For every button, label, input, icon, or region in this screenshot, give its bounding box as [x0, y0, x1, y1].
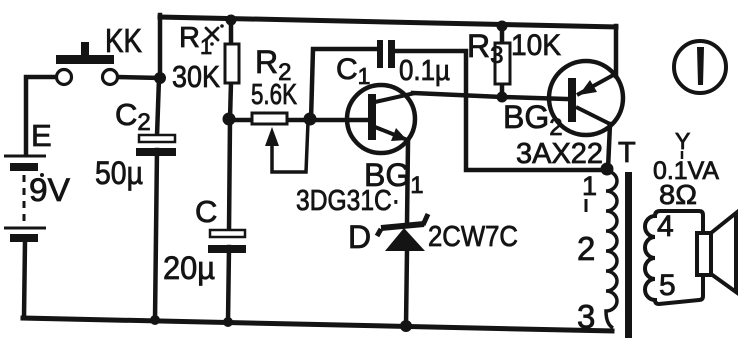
resistor R3: [495, 43, 510, 84]
junction R1 top node: [226, 15, 237, 26]
label D: [348, 219, 371, 255]
svg-text:E: E: [31, 118, 52, 153]
junction R1/R2/C node: [223, 113, 236, 126]
label tap 1: [582, 171, 597, 201]
label 10K: [511, 29, 561, 62]
transistor BG2: [549, 61, 623, 135]
label C1: [336, 53, 370, 89]
capacitor C2: [136, 135, 176, 156]
wire C1 left branch: [311, 49, 378, 120]
wire R3 branch: [500, 26, 505, 98]
wire BG1 collector row: [413, 93, 568, 99]
svg-text:0.1µ: 0.1µ: [399, 55, 450, 87]
wire right drop to BG2 emitter: [614, 26, 619, 76]
label 30K: [172, 59, 220, 94]
svg-text:4: 4: [657, 210, 674, 243]
label 50u: [95, 155, 143, 191]
svg-text:T: T: [618, 137, 636, 169]
reference mark for R1: [206, 24, 224, 46]
label tap 3: [577, 298, 595, 335]
wire BG1 emitter to zener: [407, 142, 408, 224]
label 3DG31C: [296, 185, 400, 217]
label C2: [115, 97, 151, 136]
dot above 9V: [40, 173, 44, 177]
label 5.6K: [251, 79, 297, 111]
label 20u: [163, 250, 215, 286]
wire base row to BG1: [230, 118, 369, 123]
resistor R2: [252, 113, 287, 124]
tick below label 1: [585, 199, 588, 212]
label 8ohm: [659, 179, 697, 210]
svg-text:5.6K: 5.6K: [251, 79, 297, 111]
svg-text:10K: 10K: [511, 29, 561, 62]
wire top rail: [160, 17, 616, 27]
wire zener to bottom rail: [406, 250, 407, 326]
junction C2 bottom node: [150, 315, 160, 325]
svg-text:50µ: 50µ: [95, 155, 143, 191]
svg-text:3: 3: [577, 298, 595, 335]
transformer secondary winding loop: [645, 211, 703, 304]
label BG1: [364, 157, 424, 199]
svg-text:2: 2: [577, 230, 595, 267]
label tap 4: [657, 210, 674, 243]
wire R1 branch: [230, 20, 231, 120]
junction R3 bottom node: [497, 92, 508, 103]
label R2: [255, 44, 291, 86]
label C: [195, 194, 217, 229]
svg-text:3AX22: 3AX22: [516, 138, 603, 170]
junction C bottom node: [223, 317, 233, 327]
label 3AX22: [516, 138, 603, 170]
capacitor C: [208, 230, 246, 253]
wire C branch: [228, 120, 230, 322]
wire bottom rail: [23, 318, 612, 331]
zener diode D: [377, 214, 428, 251]
svg-text:5: 5: [659, 269, 676, 302]
switch KK: [56, 42, 118, 85]
label T: [618, 137, 636, 169]
label 0.1VA: [653, 157, 719, 185]
svg-text:9V: 9V: [29, 172, 71, 208]
svg-text:Y: Y: [675, 128, 690, 154]
svg-text:8Ω: 8Ω: [659, 179, 697, 210]
svg-text:C: C: [195, 194, 217, 229]
wire switch to junction: [117, 77, 160, 78]
label 2CW7C: [428, 221, 518, 253]
svg-text:2CW7C: 2CW7C: [428, 221, 518, 253]
wire left rail top segment: [158, 15, 163, 80]
label KK: [105, 22, 142, 59]
transformer primary winding: [606, 171, 617, 328]
label Y: [675, 128, 690, 154]
label tap 5: [659, 269, 676, 302]
junction BG1 base node: [304, 113, 317, 126]
junction switch output node: [154, 72, 166, 84]
label E: [31, 118, 52, 153]
junction BG2 collector / transformer node: [601, 163, 614, 176]
wire C1 right to transformer: [393, 51, 607, 170]
tick below label Y: [681, 151, 684, 159]
svg-text:KK: KK: [105, 22, 142, 59]
svg-text:1: 1: [582, 171, 597, 201]
junction zener bottom node: [400, 320, 412, 332]
svg-text:30K: 30K: [172, 59, 220, 94]
speaker Y: [697, 213, 736, 292]
wire BG2 collector drop: [608, 124, 610, 169]
label 9V: [29, 172, 71, 208]
capacitor C1: [377, 40, 395, 68]
wire C2 branch: [155, 78, 159, 320]
svg-text:3DG31C·: 3DG31C·: [296, 185, 400, 217]
svg-text:20µ: 20µ: [163, 250, 215, 286]
potentiometer wiper arrow R2: [265, 122, 308, 172]
label BG2: [503, 99, 563, 141]
junction R3 top node: [497, 21, 508, 32]
label 0.1u: [399, 55, 450, 87]
svg-text:D: D: [348, 219, 371, 255]
label R1: [179, 22, 212, 59]
transistor BG1: [347, 85, 415, 153]
wire battery to switch: [26, 77, 58, 155]
transformer core: [625, 172, 632, 338]
indicator circle I: [674, 41, 726, 93]
wire battery bottom drop: [24, 241, 25, 318]
battery E: [4, 156, 46, 242]
resistor R1: [225, 44, 239, 83]
label tap 2: [577, 230, 595, 267]
label R3: [467, 28, 503, 69]
